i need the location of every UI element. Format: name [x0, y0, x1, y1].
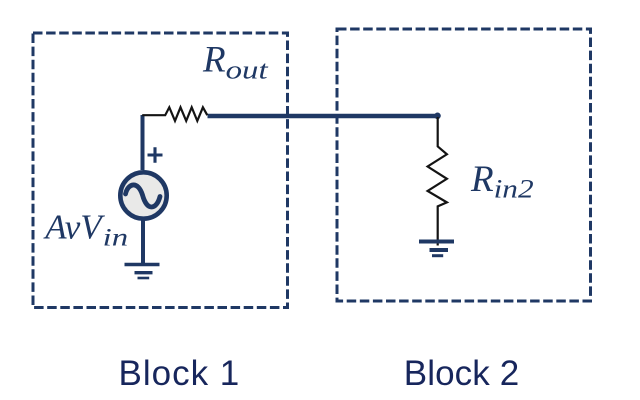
- resistor R_in2 zigzag: [428, 117, 447, 246]
- wire below source: [141, 220, 145, 264]
- wire long horizontal to block 2: [208, 114, 439, 119]
- svg-text:Block 1: Block 1: [119, 354, 241, 393]
- svg-text:AvVin: AvVin: [43, 208, 128, 252]
- source U1 circle: [120, 172, 166, 218]
- ground 2: [419, 242, 454, 256]
- sine wave: [126, 185, 161, 207]
- node dot: [434, 113, 441, 120]
- Block 1 dashed box: [33, 33, 288, 308]
- svg-text:Rin2: Rin2: [470, 159, 534, 204]
- svg-text:Block 2: Block 2: [404, 354, 519, 393]
- resistor R_out zigzag: [142, 107, 207, 121]
- wire from source to resistor corner: [141, 115, 145, 170]
- svg-text:Rout: Rout: [202, 40, 269, 85]
- Block 2 dashed box: [337, 29, 591, 301]
- ground 1: [125, 265, 160, 279]
- plus sign: [148, 147, 163, 162]
